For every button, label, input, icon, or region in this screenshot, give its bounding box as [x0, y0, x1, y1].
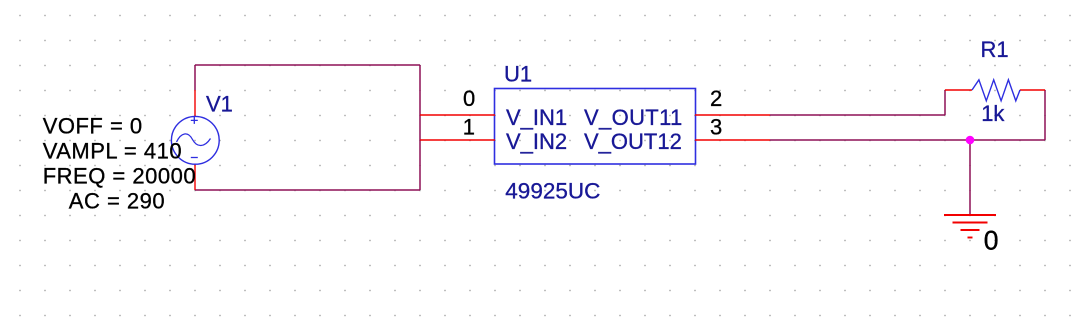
svg-text:0: 0 [463, 86, 475, 111]
wire from pin 2 to resistor step [770, 114, 945, 116]
svg-text:FREQ = 20000: FREQ = 20000 [43, 164, 196, 189]
svg-text:49925UC: 49925UC [505, 179, 600, 204]
svg-text:VOFF = 0: VOFF = 0 [43, 114, 143, 139]
svg-text:2: 2 [710, 86, 722, 111]
junction node [966, 136, 975, 145]
svg-text:V1: V1 [206, 91, 233, 116]
svg-text:1: 1 [463, 115, 475, 140]
wire above V1 [194, 65, 196, 90]
svg-text:AC = 290: AC = 290 [69, 189, 165, 214]
svg-text:V_IN1: V_IN1 [506, 105, 567, 130]
pin U1.2 V_IN2 [420, 139, 495, 141]
ground 0 symbol [944, 215, 996, 238]
svg-text:V_OUT11: V_OUT11 [584, 105, 683, 130]
svg-text:R1: R1 [981, 37, 1009, 62]
pin U1.3 V_OUT11 [695, 114, 770, 116]
wire from junction down to ground [969, 140, 971, 215]
svg-text:0: 0 [984, 226, 999, 256]
wire step up to R1 left [944, 90, 946, 115]
pin U1.4 V_OUT12 [695, 139, 770, 141]
wire loop top from V1 to node [195, 64, 420, 66]
resistor R1 [945, 80, 1045, 101]
svg-text:V_IN2: V_IN2 [506, 129, 567, 154]
svg-text:U1: U1 [504, 62, 532, 87]
wire from R1 right down [1044, 90, 1046, 140]
pin U1.1 V_IN1 [420, 114, 495, 116]
wire from pin 3 through junction to right [770, 139, 1045, 141]
svg-text:1k: 1k [981, 101, 1005, 126]
svg-text:VAMPL = 410: VAMPL = 410 [43, 139, 182, 164]
wire loop right vertical [419, 65, 421, 190]
ic U1 body [495, 89, 696, 165]
svg-text:3: 3 [710, 115, 722, 140]
voltage source V1 [171, 90, 219, 190]
svg-text:V_OUT12: V_OUT12 [584, 129, 682, 154]
wire loop bottom [195, 189, 420, 191]
